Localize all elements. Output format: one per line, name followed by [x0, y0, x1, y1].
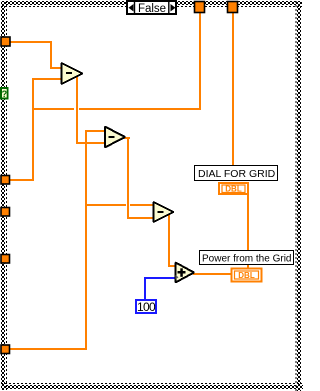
terminal DBL (DIAL FOR GRID) — [219, 183, 248, 194]
coercion arrow on add node lower input — [176, 275, 179, 280]
case structure border: right inner dashed line — [295, 1, 297, 391]
case selector terminal ? — [0, 87, 9, 100]
tunnel L5 — [1, 345, 10, 354]
case structure border: bottom band — [1, 385, 303, 389]
wire: tunnel L2 horizontal to riser — [10, 179, 34, 181]
subtract T2 — [105, 127, 125, 148]
case structure border: bottom inner dashed line — [1, 383, 302, 385]
case structure border: left band — [1, 1, 5, 390]
tunnel top A — [195, 2, 205, 13]
wire: blue constant 100 to add node lower input — [144, 277, 146, 300]
wire: top tunnel A drop — [199, 13, 201, 110]
numeric constant 100 — [136, 300, 156, 314]
wire: tunnel L1 to subtract T1 upper input — [10, 41, 52, 43]
case selector label box False — [127, 0, 176, 15]
wire: T2 upper input horizontal — [85, 130, 105, 132]
wire: T2 output right then down then right to T3 lower input — [124, 137, 130, 139]
tunnel top B — [228, 2, 238, 13]
terminal DBL (Power from the Grid) — [232, 269, 262, 282]
wire: riser x=85 from T2 upper input down to tunnel L5 — [85, 130, 87, 350]
wire: add node output to Power DBL — [193, 273, 232, 275]
svg-text:DBL: DBL — [225, 185, 242, 194]
wire: long horizontal y=108 to top tunnel A (gap at crossing x=76) — [32, 108, 74, 110]
tunnel L1 — [1, 37, 10, 46]
wire: tunnel L5 horizontal to riser x=85 — [10, 348, 87, 350]
case structure border: left inner dashed line — [6, 1, 8, 390]
svg-text:DBL: DBL — [238, 271, 255, 280]
wire: T1 lower input horizontal — [32, 78, 61, 80]
case structure border: top inner dashed line — [1, 6, 302, 8]
wire: riser x=32 from T1 lower input down to tunnel L2 — [32, 78, 34, 181]
case structure border: top band — [1, 1, 302, 5]
subtract T1 — [62, 63, 83, 84]
svg-text:Power from the Grid: Power from the Grid — [202, 253, 291, 264]
tunnel L3 — [1, 208, 10, 217]
tunnel L2 — [1, 176, 10, 185]
add node U4 — [176, 263, 195, 283]
label Power from the Grid — [200, 251, 294, 265]
label DIAL FOR GRID — [195, 166, 278, 181]
svg-text:DIAL FOR GRID: DIAL FOR GRID — [198, 168, 276, 180]
svg-text:False: False — [138, 3, 166, 15]
wire: T3 output down to add node upper input — [168, 215, 170, 267]
tunnel L4 — [1, 255, 10, 264]
svg-text:?: ? — [2, 89, 8, 99]
subtract T3 — [154, 202, 174, 222]
svg-text:100: 100 — [137, 300, 156, 314]
wire: DIAL DBL down to Power DBL — [247, 193, 249, 269]
case structure border: right band — [297, 1, 301, 391]
wire: top tunnel B drop to DIAL FOR GRID — [232, 13, 234, 166]
wire: T1 output down to T2 lower input — [76, 74, 78, 144]
wire: branch horizontal y=204 to T3 upper input (gap at crossing x=128) — [85, 204, 126, 206]
